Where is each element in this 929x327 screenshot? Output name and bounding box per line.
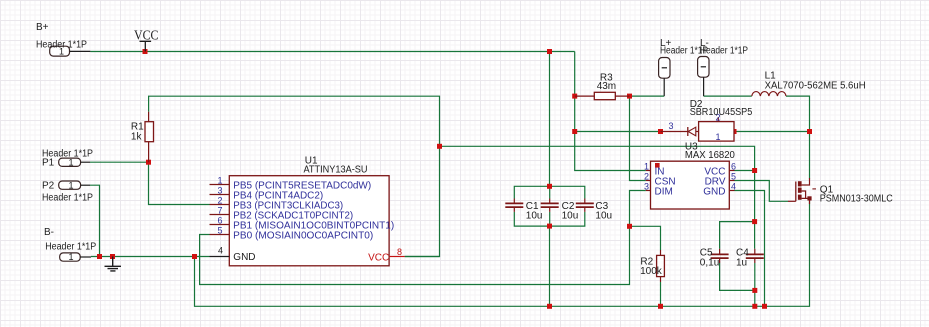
wire C4 bottom to ground rail [754,263,756,306]
junction D2 pin3 wire [658,129,663,134]
svg-text:0,1u: 0,1u [700,257,719,268]
wire cap bank to ground rail [549,226,551,306]
junction bottom rail / U3 GND drop [762,304,767,309]
svg-text:2: 2 [644,171,649,181]
svg-text:6: 6 [731,161,736,171]
svg-text:VCC: VCC [134,27,159,42]
svg-text:VCC: VCC [368,252,389,263]
U3 pin 1 IN [644,161,665,177]
wire ground rail bottom run [195,200,810,306]
U1 pin 7 PB2 [210,206,354,222]
power symbol VCC [134,27,159,51]
wire B- ground rail [91,256,210,258]
U1 pin 3 PB4 [210,186,324,202]
inductor L1 [752,71,866,97]
wire U1 pin8 riser green part [405,256,440,258]
junction C5 C4 bottom tie [752,288,757,293]
svg-text:1u: 1u [736,257,747,268]
junction VCC / C4 C5 branch [752,219,757,224]
U1 pin 6 PB1 [210,216,395,232]
svg-text:10u: 10u [562,211,579,222]
svg-text:3: 3 [669,121,674,131]
header B- [44,227,96,262]
svg-text:1: 1 [644,161,649,171]
U3 pin 2 CSN [644,171,676,187]
wire D2 pin1 to switch node [734,131,810,133]
U1 pin 5 PB0 [210,226,374,242]
op-amp U1 [229,155,389,265]
junction R3 right / CSN [627,94,632,99]
junction cap bank bottom [547,224,552,229]
U3 pin 6 VCC [704,161,736,177]
svg-text:P1: P1 [42,157,55,168]
U1 pin 2 PB3 [210,196,344,212]
svg-text:7: 7 [217,206,222,216]
capacitor C4 [736,248,764,269]
U3 pin 4 GND [703,181,736,197]
junction R3 left [572,94,577,99]
U1 pin 4 GND [210,246,256,264]
header B+ [36,22,90,57]
junction DIM R2 node [627,224,632,229]
wire VCC rail drop to capacitor bank [549,52,551,187]
wire R1 junction to PB3 [149,162,210,204]
svg-text:P2: P2 [42,180,55,191]
wire D2 pin3 net [575,131,661,133]
transistor Q1 [788,178,893,205]
wire L- header to L1 [704,95,752,97]
svg-text:1k: 1k [131,132,143,143]
svg-text:XAL7070-562ME 5.6uH: XAL7070-562ME 5.6uH [765,81,866,92]
wire L1 to switch node [786,96,810,178]
svg-text:Header 1*1P: Header 1*1P [700,46,748,57]
svg-text:ATTINY13A-SU: ATTINY13A-SU [304,165,368,176]
wire VCC top rail [90,51,574,53]
ground [105,257,122,271]
junction U3 pin6 VCC [752,168,757,173]
diode D2 [661,99,753,142]
junction D2 pin1 box edge [732,129,737,134]
header P2 [42,180,93,203]
svg-text:B+: B+ [36,22,49,33]
svg-text:4: 4 [731,181,736,191]
wire VCC net to U1 pin 8 [405,146,440,256]
junction top rail / cap bank drop [547,49,552,54]
wire R1 top to VCC net [149,96,440,146]
svg-text:GND: GND [233,252,255,263]
junction switch node at x810 [807,129,812,134]
junction VCC symbol tap [143,49,148,54]
junction bottom rail / C4 [752,304,757,309]
svg-text:MAX 16820: MAX 16820 [685,150,735,161]
svg-text:PSMN013-30MLC: PSMN013-30MLC [820,194,893,205]
wire capacitor bank top [514,186,585,198]
wire VCC branch to C5 top [720,222,755,249]
op-amp U3 [651,141,736,209]
svg-text:4: 4 [218,246,223,256]
wire U3 DIM pin [630,191,646,227]
svg-text:DIM: DIM [655,186,673,197]
junction ground symbol tap [110,254,115,259]
svg-text:GND: GND [703,186,725,197]
svg-text:43m: 43m [597,81,616,92]
junction R1 bottom / P1 [146,160,151,165]
junction ground rail drop [192,254,197,259]
junction VCC net corner x439 [437,144,442,149]
U1 pin 8 VCC [368,247,405,263]
resistor R3 [575,73,630,100]
svg-text:1: 1 [716,132,721,142]
capacitor C2 [541,199,579,222]
capacitor C1 [505,199,542,222]
svg-text:Header 1*1P: Header 1*1P [45,241,96,252]
junction D2 net at x575 [572,129,577,134]
wire U3 VCC pin 6 [735,170,755,172]
svg-text:Header 1*1P: Header 1*1P [36,39,87,50]
header L+ [659,38,709,96]
junction P2 into ground wire [97,254,102,259]
svg-text:100k: 100k [640,266,663,277]
junction cap bank top [547,184,552,189]
wire R3 sense to CSN [630,96,646,180]
wire C2 leads [549,186,551,226]
wire P2 to ground net [90,185,100,256]
svg-text:B-: B- [44,227,54,238]
header P1 [42,148,93,168]
junction bottom rail / cap bank [547,304,552,309]
wire VCC rail to U3 IN pin [575,52,646,171]
svg-text:6: 6 [217,216,222,226]
wire capacitor bank bottom [514,212,585,226]
wire U3 GND pin 4 down [735,191,765,307]
wire R2 bottom to ground rail [660,282,662,306]
svg-text:2: 2 [217,196,222,206]
resistor R1 [131,112,154,163]
wire VCC net east run [440,146,755,248]
wire U3 DRV to Q1 gate [735,181,789,202]
U3 pin 5 DRV [705,171,736,187]
svg-text:10u: 10u [595,211,612,222]
svg-text:SBR10U45SP5: SBR10U45SP5 [690,107,753,118]
svg-text:5: 5 [731,171,736,181]
header L- [698,38,749,96]
svg-text:3: 3 [217,186,222,196]
svg-text:1: 1 [68,252,73,262]
capacitor C5 [700,248,729,269]
wire R3 to L+ header [630,95,665,97]
wire C5 bottom to C4 bottom [720,263,755,290]
svg-text:1: 1 [68,180,73,190]
U1 pin 1 PB5 [210,176,372,192]
wire DIM net to PB0 [200,226,630,284]
U3 pin 3 DIM [644,181,673,197]
svg-text:Header 1*1P: Header 1*1P [42,193,93,204]
svg-text:PB0 (MOSIAIN0OC0APCINT0): PB0 (MOSIAIN0OC0APCINT0) [233,230,373,241]
svg-text:5: 5 [217,226,222,236]
svg-text:3: 3 [644,181,649,191]
junction bottom rail / R2 [658,304,663,309]
resistor R2 [640,250,664,282]
capacitor C3 [576,199,612,222]
svg-text:1: 1 [217,176,222,186]
svg-text:8: 8 [397,247,402,257]
svg-text:10u: 10u [526,211,543,222]
wire P1 to R1 bottom junction [90,161,149,163]
wire DIM to R2 top [630,226,661,250]
